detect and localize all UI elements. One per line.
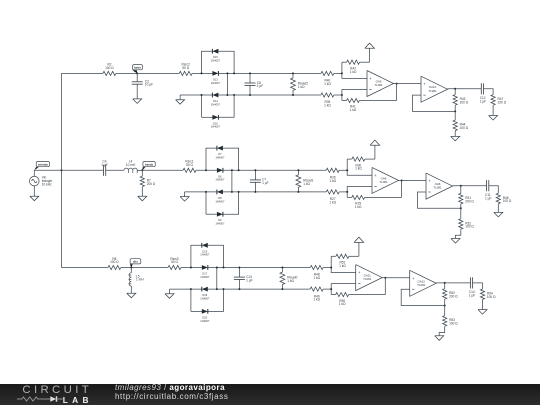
svg-text:D14: D14 <box>213 99 218 103</box>
resistor Rload0 <box>281 268 283 273</box>
svg-text:1N4007: 1N4007 <box>200 297 210 301</box>
flag banda <box>142 167 145 170</box>
svg-text:TL081: TL081 <box>363 277 372 281</box>
node alto <box>130 267 132 269</box>
ground under divider <box>454 131 456 137</box>
wire top pair left <box>206 148 217 170</box>
ground under L5 <box>127 293 136 298</box>
svg-text:D20: D20 <box>202 315 207 319</box>
svg-text:1N4007: 1N4007 <box>200 253 210 257</box>
svg-text:10 μF: 10 μF <box>145 83 153 87</box>
resistor R48 <box>310 265 323 269</box>
svg-text:1N4007: 1N4007 <box>215 199 225 203</box>
svg-text:50 Ω: 50 Ω <box>182 66 189 70</box>
svg-text:1 kΩ: 1 kΩ <box>298 85 305 89</box>
wire L4 to node <box>137 169 142 171</box>
flag baixo <box>132 70 137 73</box>
op-amp OA8 <box>372 167 399 193</box>
svg-text:1 μF: 1 μF <box>257 84 263 88</box>
svg-text:banda: banda <box>145 162 153 166</box>
svg-text:100 Ω: 100 Ω <box>110 260 119 264</box>
svg-text:1 kΩ: 1 kΩ <box>355 205 362 209</box>
wire source to rail <box>33 170 35 176</box>
wire oa2 feedback <box>401 289 445 305</box>
wire oa2 feedback <box>418 192 461 208</box>
wire minus junction <box>346 186 348 197</box>
wire top pair left <box>202 51 213 73</box>
node banda <box>141 169 143 171</box>
resistor R54 <box>480 289 484 300</box>
resistor Rsrc2 <box>179 71 192 75</box>
resistor R47 <box>491 95 495 106</box>
node bus tee <box>61 169 63 171</box>
svg-text:10 kHz: 10 kHz <box>42 182 52 186</box>
resistor R30 <box>347 158 352 160</box>
wire R8 to node <box>121 267 131 269</box>
resistor R41 <box>346 98 359 102</box>
svg-text:1 μF: 1 μF <box>469 294 475 298</box>
wire C4 to L4 <box>106 169 124 171</box>
diode D9 <box>217 212 223 217</box>
CircuitLab logo <box>22 385 102 396</box>
ground under output resistor <box>497 204 499 212</box>
svg-text:10 mH: 10 mH <box>126 163 136 167</box>
ground under source <box>33 186 35 196</box>
resistor R46 <box>496 193 500 204</box>
svg-text:200 Ω: 200 Ω <box>147 182 156 186</box>
vcc arrow <box>358 242 360 256</box>
wire top pair right <box>218 51 234 73</box>
wire oa2 feedback <box>413 95 456 111</box>
svg-text:1 kΩ: 1 kΩ <box>329 179 336 183</box>
diode D14 <box>212 93 218 98</box>
wire main rail after series diode <box>208 267 310 269</box>
op-amp OA9 <box>367 71 394 97</box>
resistor R50 <box>336 293 349 297</box>
capacitor C2 <box>136 73 138 82</box>
svg-text:D8: D8 <box>218 196 222 200</box>
junction dots <box>205 169 207 171</box>
svg-text:1 kΩ: 1 kΩ <box>303 182 310 186</box>
svg-text:1 kΩ: 1 kΩ <box>287 279 294 283</box>
resistor R44 <box>454 111 456 120</box>
svg-text:TL081: TL081 <box>417 283 426 287</box>
wire top pair left <box>191 245 202 267</box>
wire clamp pair right <box>223 192 239 214</box>
wire clamp pair left <box>190 289 192 311</box>
svg-text:1N4007: 1N4007 <box>211 102 221 106</box>
wire clamp pair right <box>218 95 234 117</box>
voltage source Vin <box>30 176 40 186</box>
feedback vertical <box>396 84 398 101</box>
wire clamp pair right <box>208 289 224 311</box>
svg-text:100 Ω: 100 Ω <box>449 322 458 326</box>
svg-text:200 Ω: 200 Ω <box>449 295 458 299</box>
vcc arrow <box>369 48 371 62</box>
svg-text:1 kΩ: 1 kΩ <box>329 201 336 205</box>
svg-text:D15: D15 <box>213 55 218 59</box>
svg-text:1 μF: 1 μF <box>480 99 486 103</box>
wire center vertical <box>226 73 228 95</box>
svg-text:50 Ω: 50 Ω <box>186 163 193 167</box>
svg-text:entrada: entrada <box>38 162 48 166</box>
node baixo <box>136 72 138 74</box>
svg-text:D7: D7 <box>218 152 222 156</box>
resistor R7 <box>141 170 143 176</box>
wire top pair right <box>223 148 239 170</box>
wire to output resistor <box>473 283 483 289</box>
wire clamp pair left <box>201 95 203 117</box>
svg-text:D6: D6 <box>218 174 222 178</box>
wire L5 to ground <box>130 286 132 293</box>
resistor R43 <box>454 89 456 95</box>
svg-text:1N4007: 1N4007 <box>200 319 210 323</box>
resistor Rload2 <box>292 73 294 78</box>
svg-text:1N4007: 1N4007 <box>215 156 225 160</box>
wire oa2 out <box>436 282 470 284</box>
wire main rail top <box>137 72 179 74</box>
wire C2 to ground <box>136 84 138 99</box>
diode D6 <box>217 168 223 173</box>
wire main rail after series diode <box>218 72 321 74</box>
ground under divider <box>456 229 461 238</box>
wire plus junction <box>342 62 367 78</box>
op-amp OA6 <box>426 173 453 199</box>
resistor R2 <box>103 71 116 75</box>
resistor R8 <box>108 265 121 269</box>
capacitor C8 <box>249 73 251 83</box>
svg-text:TL081: TL081 <box>374 83 383 87</box>
svg-text:1 μF: 1 μF <box>246 278 252 282</box>
junction dots <box>190 267 192 269</box>
svg-text:1 kΩ: 1 kΩ <box>324 82 331 86</box>
svg-text:1 kΩ: 1 kΩ <box>339 302 346 306</box>
op-amp OA11 <box>356 265 383 291</box>
svg-text:1N4007: 1N4007 <box>215 178 225 182</box>
wire oa1 out <box>382 277 410 279</box>
inductor L4 <box>124 168 137 170</box>
svg-text:1 kΩ: 1 kΩ <box>324 104 331 108</box>
svg-text:50 Ω: 50 Ω <box>171 260 178 264</box>
op-amp OA12 <box>410 270 437 296</box>
svg-text:100 Ω: 100 Ω <box>465 225 474 229</box>
wire R2 to node <box>116 72 137 74</box>
diode D15 <box>212 49 218 54</box>
diode D19 <box>202 243 208 248</box>
svg-text:200 Ω: 200 Ω <box>465 199 474 203</box>
svg-text:1 μF: 1 μF <box>485 196 491 200</box>
ground under R7 <box>138 196 147 201</box>
ground under output resistor <box>492 105 494 115</box>
wire rsrc to cluster <box>181 267 202 269</box>
svg-text:1 μF: 1 μF <box>101 163 107 167</box>
resistor R26 <box>326 168 339 172</box>
wire rsrc to cluster <box>192 72 212 74</box>
wire oa1 out <box>399 180 427 182</box>
wire oa1 out <box>394 83 422 85</box>
svg-text:1 mH: 1 mH <box>136 278 144 282</box>
resistor Rload1 <box>297 170 299 175</box>
wire to output resistor <box>484 89 494 95</box>
wire plus junction <box>347 159 372 175</box>
svg-text:baixo: baixo <box>134 66 141 70</box>
capacitor C14 <box>469 277 471 288</box>
resistor R39 <box>321 93 334 97</box>
capacitor C11 <box>486 180 488 191</box>
svg-text:TL081: TL081 <box>433 186 442 190</box>
svg-text:D17: D17 <box>202 272 207 276</box>
svg-text:100 Ω: 100 Ω <box>460 126 469 130</box>
flag entrada <box>34 167 39 170</box>
junction dots <box>201 72 203 74</box>
wire minus junction <box>341 90 343 101</box>
feedback vertical <box>401 181 403 198</box>
wire minus junction <box>330 284 332 295</box>
resistor R42 <box>342 61 347 63</box>
svg-text:1N4007: 1N4007 <box>215 222 225 226</box>
svg-text:D9: D9 <box>218 218 222 222</box>
resistor R40 <box>321 71 334 75</box>
ground under output resistor <box>482 300 484 310</box>
svg-text:100 Ω: 100 Ω <box>487 295 496 299</box>
wire main rail after series diode <box>223 169 326 171</box>
capacitor C4 <box>103 165 105 176</box>
svg-text:alto: alto <box>133 260 138 264</box>
wire center vertical <box>216 268 218 290</box>
svg-text:1 kΩ: 1 kΩ <box>313 276 320 280</box>
inductor L5 <box>130 268 132 273</box>
wire rsrc to cluster <box>196 169 217 171</box>
wire to output resistor <box>489 186 499 194</box>
diode D13 <box>212 71 218 76</box>
svg-text:1 kΩ: 1 kΩ <box>313 298 320 302</box>
vcc arrow <box>374 145 376 159</box>
capacitor C13 <box>238 268 240 278</box>
diode D17 <box>202 265 208 270</box>
wire oa2 out <box>453 185 487 187</box>
wire main rail middle <box>142 169 183 171</box>
wire oa2 out <box>448 88 482 90</box>
resistor Rsrc0 <box>168 265 181 269</box>
svg-text:100 Ω: 100 Ω <box>498 101 507 105</box>
diode D20 <box>202 309 208 314</box>
wire bus to R8 <box>62 267 108 269</box>
svg-text:D13: D13 <box>213 77 218 81</box>
resistor R53 <box>444 306 446 316</box>
svg-text:D19: D19 <box>202 249 207 253</box>
svg-text:1N4007: 1N4007 <box>211 59 221 63</box>
svg-text:100 Ω: 100 Ω <box>503 199 512 203</box>
svg-text:TL081: TL081 <box>428 89 437 93</box>
resistor R52 <box>444 283 446 289</box>
op-amp OA10 <box>421 76 448 102</box>
wire bus to R2 <box>62 72 103 74</box>
svg-text:1 μF: 1 μF <box>262 181 268 185</box>
wire plus junction <box>331 256 356 272</box>
svg-text:1 kΩ: 1 kΩ <box>350 70 357 74</box>
wire input bus vertical <box>61 73 63 267</box>
svg-text:100 Ω: 100 Ω <box>105 66 114 70</box>
resistor R27 <box>326 190 339 194</box>
ground clamp <box>184 192 186 197</box>
capacitor C7 <box>254 170 256 180</box>
svg-text:1 kΩ: 1 kΩ <box>350 108 357 112</box>
feedback vertical <box>384 278 386 295</box>
wire low rail <box>180 94 212 96</box>
svg-text:1N4007: 1N4007 <box>211 81 221 85</box>
svg-text:1N4007: 1N4007 <box>200 275 210 279</box>
wire center vertical <box>231 170 233 192</box>
svg-text:1 kΩ: 1 kΩ <box>355 167 362 171</box>
wire low rail <box>185 191 217 193</box>
flag alto <box>130 264 133 267</box>
resistor R51 <box>331 255 336 257</box>
wire top pair right <box>208 245 224 267</box>
svg-text:1N4007: 1N4007 <box>211 125 221 129</box>
wire clamp pair left <box>205 192 207 214</box>
diode D8 <box>217 190 223 195</box>
ground under C2 <box>133 99 142 104</box>
diode D7 <box>217 146 223 151</box>
resistor Rsrc1 <box>183 168 196 172</box>
wire low rail <box>170 288 202 290</box>
svg-text:TL081: TL081 <box>379 180 388 184</box>
resistor R49 <box>310 287 323 291</box>
resistor R31 <box>460 186 462 194</box>
resistor R32 <box>460 208 462 219</box>
diode D18 <box>202 287 208 292</box>
ground under divider <box>439 326 445 336</box>
wire R7 to ground <box>141 187 143 197</box>
wire main rail bottom <box>131 267 168 269</box>
ground clamp <box>179 95 181 100</box>
resistor R29 <box>352 195 365 199</box>
svg-text:200 Ω: 200 Ω <box>460 101 469 105</box>
capacitor C12 <box>480 83 482 94</box>
ground clamp <box>169 289 171 294</box>
wire source to C4 <box>34 169 103 171</box>
svg-text:1 kΩ: 1 kΩ <box>339 264 346 268</box>
diode D16 <box>212 115 218 120</box>
svg-text:D16: D16 <box>213 121 218 125</box>
svg-text:D18: D18 <box>202 293 207 297</box>
